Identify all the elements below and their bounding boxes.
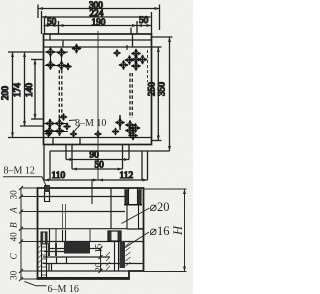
dark plug x55: [55, 243, 57, 256]
bolt2 (phi16) head: [108, 231, 121, 241]
bottom edge emphasis: [38, 277, 130, 279]
dashed guide line right pair: [130, 73, 132, 118]
band tick x132.5: [132, 34, 134, 47]
cavity vertical x66.5: [66, 257, 68, 264]
dim 90 line (below plate): [66, 158, 129, 161]
below-plate extension x44: [43, 145, 45, 181]
left chain dimension line: [19, 186, 38, 281]
band tick bottom x80: [79, 138, 81, 145]
hole cross center-bottom on centerline: [94, 130, 102, 138]
below-plate extension x74.5: [71, 145, 73, 170]
section line y220.5: [38, 228, 128, 230]
guide post (phi20): [127, 205, 139, 230]
below-plate extension x142: [141, 151, 143, 180]
extension line x137: [136, 21, 138, 34]
chain ticks: [19, 186, 23, 281]
leader 6-M16: [25, 282, 47, 286]
extension line top-left 224: [41, 11, 43, 34]
section line y241.5: [38, 241, 144, 243]
dashed hidden line right x147.5: [147, 50, 149, 82]
screw stud1 (8-M12): [44, 186, 50, 202]
left extension y59.5: [31, 59, 44, 61]
right extension y37: [152, 36, 173, 38]
hole cross single top-left: [72, 44, 82, 54]
dim 224 line: [42, 16, 151, 19]
pin3 (center): [63, 230, 66, 242]
guide bushing (top right): [125, 190, 129, 205]
right extension y140.5: [152, 140, 162, 142]
dim H line: [144, 189, 187, 272]
dim 50-190-50 line: [44, 24, 152, 27]
section cavity line y251.5: [44, 251, 64, 253]
hole cross cluster bottom-right: [115, 115, 125, 130]
leader 8-M12: [3, 177, 47, 187]
rail extension line below plate: [50, 150, 170, 152]
bolt1 shaft: [42, 244, 47, 278]
extension line top-left 300: [37, 5, 39, 19]
bolt1 hatch left: [38, 245, 42, 268]
die insert dark block: [64, 242, 90, 254]
extension line x131: [130, 28, 132, 35]
cavity vertical x56: [55, 229, 57, 243]
section line y269.5: [38, 270, 144, 272]
below-plate extension x66: [65, 145, 67, 160]
section line y198: [38, 196, 126, 198]
cavity vertical pair bottom x49 x51.5: [48, 264, 50, 272]
left extension y119: [31, 118, 44, 120]
cavity vertical x49.5: [49, 229, 51, 243]
plate top band line 2: [44, 46, 152, 48]
leader phi20: [122, 208, 150, 224]
section line y204: [38, 211, 126, 213]
chain extensions: [21, 187, 38, 189]
dim 200 line (left): [11, 52, 14, 138]
section vertical x111: [110, 188, 112, 229]
dim 350 line (right): [168, 37, 171, 151]
dim 300 line: [38, 7, 160, 10]
plate outline (top view): [44, 34, 152, 145]
extension line top-left corner: [44, 18, 46, 34]
dim 50 line (below plate): [72, 168, 123, 171]
below-plate extension x123: [122, 145, 124, 170]
hole cross cluster top-right: [127, 45, 144, 68]
leader 8-M10 arrow: [69, 120, 80, 133]
right extension y48.5: [152, 46, 162, 48]
dim 140 line (left): [34, 60, 37, 120]
band tick bottom x53: [52, 138, 54, 145]
hole cross single bottom-right-edge: [112, 128, 120, 136]
centerline vertical: [97, 31, 99, 180]
below-plate extension x50: [49, 151, 51, 180]
section line y229: [127, 228, 144, 230]
below-plate extension x131.5: [128, 145, 130, 160]
insert right edge line x90: [89, 229, 91, 242]
below-plate extension x147.5: [147, 151, 149, 180]
bolt2 dark band: [120, 241, 126, 268]
hole cross single bottom-center: [70, 130, 78, 138]
plate top band line 1: [44, 39, 152, 41]
bushing wall hatch: [125, 188, 141, 203]
dark plug x48: [48, 243, 50, 256]
hole cross cluster bottom-left: [44, 117, 68, 136]
cavity vertical x56.5: [56, 257, 58, 264]
left extension y126: [20, 125, 44, 127]
band tick x63: [62, 40, 64, 47]
bolt2 hatch left: [106, 252, 110, 270]
dim 15-20 chain: [99, 247, 103, 274]
band tick x50: [49, 34, 51, 40]
hole cross cluster top-left: [45, 48, 69, 70]
extension line x58.5: [58, 21, 60, 34]
dashed guide line left pair: [59, 70, 62, 119]
section outline: [38, 188, 144, 279]
bolt2 shaft: [115, 241, 119, 271]
extension line top-right 300: [159, 5, 161, 31]
dim 250 line (right): [157, 47, 160, 141]
section cavity line y248.5: [50, 248, 64, 250]
section cavity line y257: [43, 256, 110, 258]
pin hole hidden lines above: [62, 204, 64, 229]
bolt1 (6-M16) head: [41, 232, 47, 244]
section cavity line y263.5: [43, 263, 144, 265]
dim 110-112 line: [44, 179, 148, 182]
bolt2 hatch right: [126, 242, 131, 266]
extension line top-right 224: [151, 12, 153, 34]
hole cross single top-right: [113, 49, 121, 57]
vertical line x92: [91, 179, 93, 204]
scan noise overlay: [0, 0, 1, 1]
left extension y52: [8, 51, 44, 53]
dim 174 line (left): [23, 52, 26, 126]
leader phi16: [121, 232, 150, 251]
plate bottom band line: [44, 137, 152, 139]
left extension y137.5: [8, 137, 44, 139]
